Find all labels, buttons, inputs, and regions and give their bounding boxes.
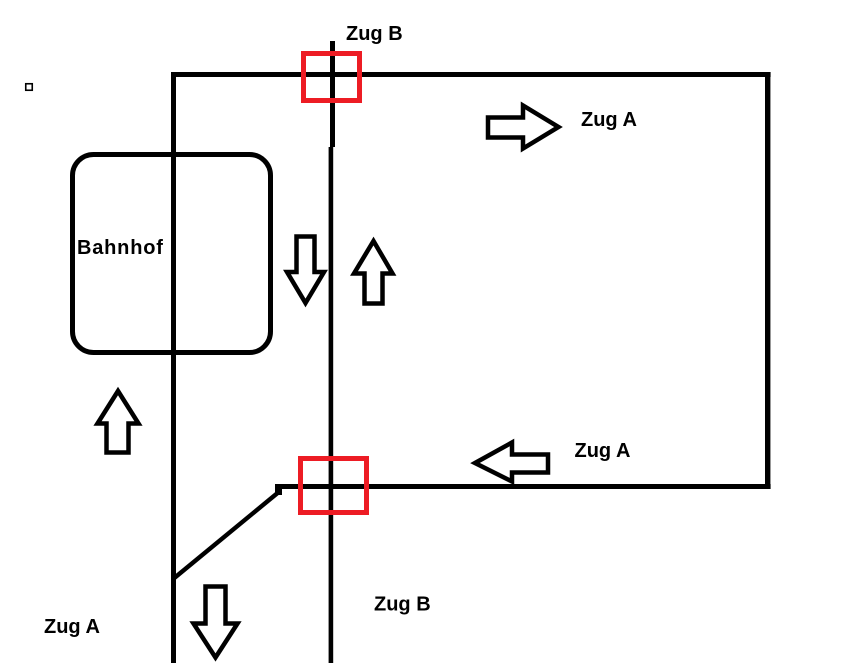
arrow Zug A left (bottom track) bbox=[475, 443, 548, 482]
wire track-zugB-vertical-upper bbox=[330, 41, 335, 147]
node crossing-marker red bottom bbox=[301, 459, 367, 513]
wire switch-stub bbox=[275, 484, 282, 495]
tiny square marker top-left bbox=[26, 84, 33, 91]
arrow up (below Bahnhof) bbox=[98, 391, 139, 453]
arrow down (middle, left of Zug B track) bbox=[287, 237, 324, 304]
svg-text:Zug A: Zug A bbox=[44, 616, 100, 638]
wire track-left-vertical Zug A bbox=[171, 72, 176, 663]
wire track-bottom-horizontal bbox=[275, 484, 771, 489]
wire track-top-horizontal bbox=[171, 72, 771, 77]
wire track-right-vertical bbox=[765, 72, 770, 489]
arrow Zug A right (top) bbox=[488, 106, 559, 149]
svg-text:Zug B: Zug B bbox=[346, 23, 403, 45]
node crossing-marker red top bbox=[304, 54, 360, 101]
svg-text:Zug B: Zug B bbox=[374, 594, 431, 616]
wire track-diagonal-switch bbox=[174, 491, 280, 579]
svg-text:Bahnhof: Bahnhof bbox=[77, 237, 164, 259]
arrow down (bottom, Zug A leaving) bbox=[194, 587, 238, 658]
arrow up (middle, right of Zug B track) bbox=[354, 241, 393, 304]
svg-text:Zug A: Zug A bbox=[575, 440, 631, 462]
node Bahnhof station box bbox=[73, 155, 271, 353]
svg-text:Zug A: Zug A bbox=[581, 109, 637, 131]
wire track-zugB-vertical-lower bbox=[329, 147, 334, 663]
